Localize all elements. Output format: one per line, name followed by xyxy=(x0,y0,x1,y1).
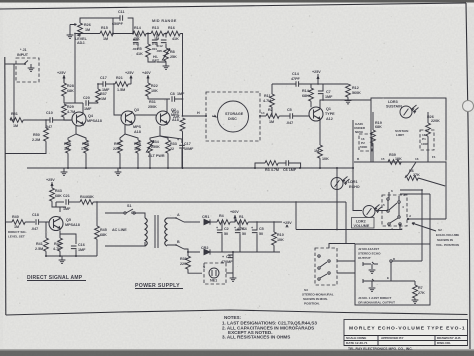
resistor R51 xyxy=(10,118,23,123)
wire AC line bottom xyxy=(105,242,145,246)
resistor R38 xyxy=(76,134,88,168)
ground symbol on bus left xyxy=(61,168,68,175)
wire R51 to C10 xyxy=(23,119,50,121)
ground in J1 xyxy=(30,64,32,68)
capacitor C8 xyxy=(172,96,183,102)
neon lamp NE1 xyxy=(209,268,219,278)
wire node to Q3 base xyxy=(114,84,121,115)
ground symbol power supply xyxy=(230,278,237,281)
jack J2 xyxy=(363,262,378,273)
wire echo-volume lower bus xyxy=(296,224,402,230)
svg-text:3. ALL RESISTANCES IN OHMS: 3. ALL RESISTANCES IN OHMS xyxy=(222,335,290,340)
capacitor C17B xyxy=(97,81,114,87)
photocell LDR3 xyxy=(400,105,419,118)
wire right bus upper xyxy=(445,98,447,162)
capacitor C3 electrolytic xyxy=(228,252,234,258)
wire input down xyxy=(5,64,14,120)
svg-text:DWG NO.: DWG NO. xyxy=(437,341,451,345)
wire direct out drop to echo-volume bus xyxy=(295,202,297,230)
resistor R41 2.5M xyxy=(44,222,49,256)
photocell LDR2 xyxy=(363,205,382,218)
wire Q2 collector node xyxy=(148,99,170,111)
wire +25V rail to R12 xyxy=(318,83,348,85)
ground bus echo preamp xyxy=(27,167,354,169)
capacitor C16 xyxy=(60,234,77,256)
resistor R45 68K xyxy=(95,202,100,256)
wire Q1 emitter down xyxy=(319,121,321,145)
diode CR2 xyxy=(204,249,210,254)
switch S3 dashed box xyxy=(315,248,337,285)
resistor R23 22K xyxy=(180,115,185,168)
wire right bus down xyxy=(445,162,447,219)
storage disc xyxy=(218,101,249,132)
wire drop B jack box edge xyxy=(429,194,431,244)
sheet left border / input feed line xyxy=(5,57,6,315)
hole punch xyxy=(463,101,474,112)
transformer T1 secondary xyxy=(165,218,167,246)
resistor R33 xyxy=(160,136,170,168)
wire S3 to jack box xyxy=(329,244,355,274)
resistor R16 xyxy=(167,31,180,36)
capacitor C13 xyxy=(152,34,158,47)
wire C10 to Q4 base xyxy=(53,119,72,121)
node A xyxy=(175,217,177,219)
wire +25V drop xyxy=(317,74,319,84)
potentiometer P1 dashed xyxy=(420,130,434,150)
svg-text:MORLEY ECHO-VOLUME TYPE EVO-1: MORLEY ECHO-VOLUME TYPE EVO-1 xyxy=(349,326,466,332)
resistor R21 1.5M xyxy=(113,76,131,87)
photocell LDR1 xyxy=(331,168,350,230)
resistor R3 xyxy=(255,161,278,168)
wire disc output xyxy=(260,115,266,117)
switch S1 xyxy=(105,209,145,218)
wire direct line down to jack box xyxy=(346,202,355,244)
resistor R26B 220K xyxy=(426,112,431,162)
sheet top border xyxy=(0,3,466,9)
wire J2 node down xyxy=(390,262,392,281)
resistor R13 xyxy=(151,31,164,36)
wire left line to R40 xyxy=(6,221,12,223)
capacitor C5 xyxy=(290,113,293,119)
junction dots on ground bus xyxy=(45,33,354,257)
capacitor C14 xyxy=(133,34,139,47)
resistor R5 xyxy=(146,34,166,63)
wire NE1 to ground xyxy=(226,252,233,278)
capacitor C5B electrolytic xyxy=(252,222,258,252)
capacitor C11 xyxy=(113,15,123,33)
transformer core xyxy=(155,215,158,248)
svg-text:NOTES:: NOTES: xyxy=(224,315,242,320)
capacitor C2 electrolytic xyxy=(217,222,223,252)
wire feed to level pot xyxy=(80,18,133,34)
jack J1 contacts xyxy=(14,61,28,65)
potentiometer R8 25K xyxy=(162,48,170,70)
wire B to CR2 xyxy=(184,249,200,252)
resistor R11 4.7M xyxy=(270,84,275,116)
wire switch rect segment xyxy=(400,193,430,195)
capacitor C6 xyxy=(278,160,300,168)
bottom scan edge strip xyxy=(0,351,474,356)
wire Q4 collector to ladder xyxy=(74,34,76,104)
wire d node to right bus xyxy=(408,218,446,220)
capacitor C7 xyxy=(318,84,324,100)
dashed box storage disc xyxy=(206,92,260,141)
input jack J1 dashed box xyxy=(16,58,39,82)
wire sustain bottom xyxy=(354,161,446,163)
potentiometer P2 dashed xyxy=(359,134,372,151)
transistor Q5 xyxy=(49,217,63,231)
capacitor C21 xyxy=(56,199,80,207)
capacitor C14B 47PF xyxy=(272,81,318,87)
capacitor C20 xyxy=(86,100,98,106)
potentiometer R34 250K xyxy=(146,126,160,168)
resistor R1 4.7K xyxy=(230,220,280,225)
resistor R35 xyxy=(125,134,140,168)
contact d xyxy=(407,218,409,220)
resistor R2 xyxy=(266,114,279,119)
resistor R14 xyxy=(133,31,146,36)
resistor R36 xyxy=(118,125,125,168)
jack J3 xyxy=(363,279,391,291)
resistor R29 4.7M xyxy=(62,104,72,120)
wire C5 to Q1 base xyxy=(293,115,309,117)
svg-text:APPROVED BY: APPROVED BY xyxy=(381,336,404,340)
wire to disc input xyxy=(183,115,207,117)
wire drop A xyxy=(421,190,423,261)
resistor R42 4.7K xyxy=(58,231,63,256)
resistor R40 DIRECT SIG LEVEL SET xyxy=(12,220,35,225)
sustain section box xyxy=(371,98,446,162)
resistor R39B 10K xyxy=(388,160,401,165)
resistor R28 xyxy=(62,83,67,103)
top scan edge strip xyxy=(0,0,474,3)
supply tick arrows xyxy=(51,76,319,227)
svg-text:SCALE NONE: SCALE NONE xyxy=(346,336,366,340)
label LDR2 VOLUME box xyxy=(352,218,375,229)
transistor Q4 xyxy=(72,112,86,126)
capacitor C17 electrolytic xyxy=(160,136,185,168)
wire Q3 to Q2 base xyxy=(135,114,156,116)
resistor R44 68K xyxy=(80,200,346,205)
switch S2 dashed box xyxy=(382,195,407,226)
resistor R19 68K xyxy=(371,112,376,162)
ground bus direct amp xyxy=(46,255,97,257)
wire switch node to drop A xyxy=(400,189,422,191)
resistor R22 10K xyxy=(146,75,151,99)
transformer T1 primary xyxy=(145,218,147,246)
notes text xyxy=(222,315,317,340)
wire Q5 collector node xyxy=(56,207,66,212)
junction node xyxy=(45,119,47,121)
capacitor C10 xyxy=(50,117,53,123)
potentiometer R26 LEVEL ADJ xyxy=(67,23,83,38)
wire into jack box xyxy=(392,260,422,262)
wire R2 to C5 xyxy=(279,115,290,117)
transistor Q1 xyxy=(309,107,323,121)
wire CR2 to ground rail xyxy=(210,251,280,253)
svg-text:DATE 12-30-71: DATE 12-30-71 xyxy=(346,341,368,345)
S3 contacts xyxy=(318,255,330,280)
capacitor C18 xyxy=(36,219,39,225)
wire Q1 collector to sustain box xyxy=(320,100,371,107)
resistor R37 xyxy=(96,84,101,102)
transistor Q2 xyxy=(156,111,170,125)
resistor R10 10K xyxy=(272,222,277,252)
sheet right paper edge xyxy=(466,3,470,351)
resistor R6 27K xyxy=(405,162,445,186)
ground symbol direct amp xyxy=(59,256,66,263)
resistor R15 xyxy=(100,31,113,36)
wire to CR1 xyxy=(184,221,200,223)
svg-text:TEL-RAY ELECTRONICS MFG. CO.,: TEL-RAY ELECTRONICS MFG. CO., INC. xyxy=(348,347,413,351)
output jack box xyxy=(355,244,430,305)
resistor R30 220 xyxy=(186,252,202,273)
sheet bottom border xyxy=(6,310,468,315)
label S2 arrow xyxy=(412,223,436,231)
resistor R50 xyxy=(6,120,49,154)
wire LDR2 to switch xyxy=(376,210,389,212)
switch S2 contacts xyxy=(387,192,401,225)
resistor R4 xyxy=(217,220,230,225)
wire CR1 to R4 xyxy=(210,221,217,223)
ground symbol on bus xyxy=(115,168,122,175)
wire +25V down xyxy=(63,75,65,83)
wire C18 to Q5 xyxy=(39,221,49,223)
wire volume feed drop xyxy=(353,120,362,211)
node B xyxy=(175,244,177,246)
resistor R7 27K xyxy=(412,281,419,303)
transistor Q3 xyxy=(121,111,135,125)
svg-text:DRAWN BY JLB: DRAWN BY JLB xyxy=(437,336,461,340)
resistor R43 68K xyxy=(50,182,56,207)
capacitor C4 electrolytic xyxy=(235,222,241,252)
node D xyxy=(390,260,392,262)
neon NE1 dashed box xyxy=(204,263,226,284)
resistor R39 xyxy=(66,126,76,168)
resistor R14B 68K xyxy=(309,84,314,107)
resistor R17 xyxy=(318,145,323,168)
wire collector node Q4 xyxy=(64,103,83,112)
wire ladder main line xyxy=(75,34,183,117)
diode CR1 xyxy=(204,219,210,224)
capacitor C12 xyxy=(161,34,167,48)
resistor R12 560K xyxy=(345,84,352,104)
wire secondary taps xyxy=(167,218,184,249)
